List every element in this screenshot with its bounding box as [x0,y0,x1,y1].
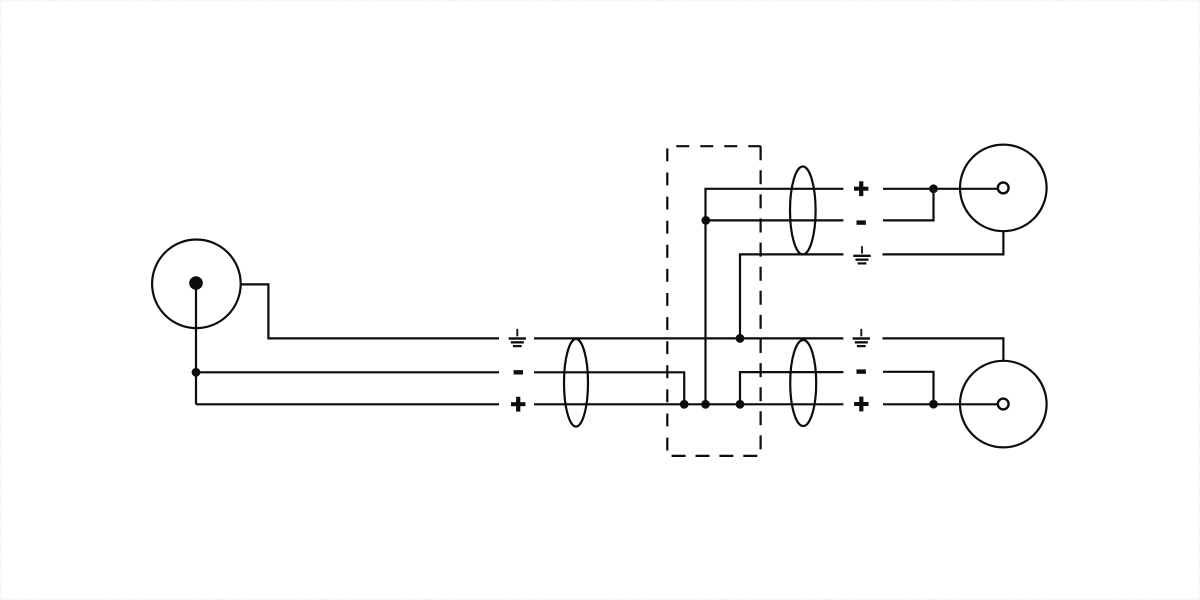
label minus upper-right [857,220,866,224]
wire minus middle to plus bus [534,372,684,404]
wire vertical riser plus bus to top plus [706,189,844,404]
junction box dashed outline left edge [666,146,668,456]
wire top minus [706,219,844,221]
ground symbol upper-right [853,246,870,264]
wire plus bus middle [534,403,843,405]
ground symbol lower-right [853,329,870,347]
wire ground into connector J2 shell [883,232,1004,255]
wire minus tie-down at connector J3 [883,372,934,404]
node junction dot J3 plus/minus tie [929,400,938,409]
label plus upper-right [854,181,868,196]
wire J1 shell to left ground stub [241,284,500,338]
wire plus into connector J3 [883,403,998,405]
connector J2 tip contact [998,183,1009,194]
connector J3 tip contact [998,399,1009,410]
wire left plus stub [196,403,499,405]
wire left minus stub [196,371,499,373]
wire ground into connector J3 shell [883,338,1004,361]
label minus lower-right [857,369,866,373]
node junction dot drop / ground line [736,334,745,343]
cable shield ellipse left [564,339,588,427]
node junction dot riser / plus bus [701,400,710,409]
wire lower-right minus branch to plus bus [740,372,843,404]
junction box dashed outline bottom edge [667,455,760,457]
wire minus tie-up at connector J2 [883,189,934,221]
wire J1 pin vertical down to plus bus corner [195,283,197,404]
wire vertical drop top ground to ground line [740,254,843,338]
node junction dot minus to plus bus [680,400,689,409]
node junction dot J2 plus/minus tie [929,184,938,193]
node junction dot lower minus branch / plus bus [736,400,745,409]
wire ground line middle [534,337,843,339]
junction box dashed outline top edge [667,145,761,147]
connector J3 shell (lower right) [960,361,1047,448]
connector J1 shell (RCA plug, left) [152,239,241,328]
label minus left [514,370,523,374]
junction box dashed outline right edge [759,146,761,456]
connector J1 center pin contact [189,276,203,290]
ground symbol left [509,329,526,347]
cable shield ellipse lower-right [790,340,816,426]
node junction dot J1 pin / minus branch [192,368,201,377]
wire plus into connector J2 [883,188,998,190]
connector J2 shell (upper right) [960,145,1047,232]
label plus lower-right [854,397,868,412]
cable shield ellipse upper-right [790,167,816,255]
node junction dot riser / top minus [701,216,710,225]
label plus left [511,397,525,412]
